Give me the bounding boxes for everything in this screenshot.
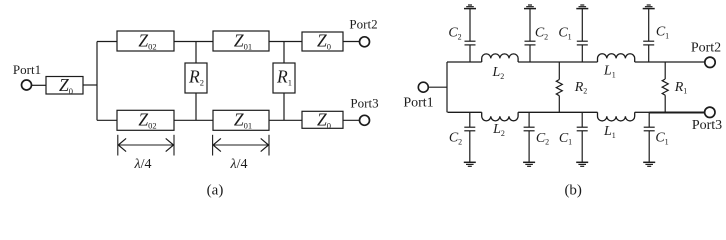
svg-text:(a): (a) [207, 183, 224, 199]
svg-text:λ/4: λ/4 [230, 157, 248, 172]
svg-text:λ/4: λ/4 [134, 157, 152, 172]
svg-text:Port1: Port1 [13, 62, 41, 77]
svg-text:Port3: Port3 [692, 118, 722, 133]
svg-text:Port1: Port1 [403, 95, 433, 110]
svg-text:Port3: Port3 [350, 96, 378, 111]
svg-text:(b): (b) [564, 183, 582, 199]
svg-text:Port2: Port2 [349, 17, 377, 32]
svg-text:Port2: Port2 [691, 41, 721, 56]
